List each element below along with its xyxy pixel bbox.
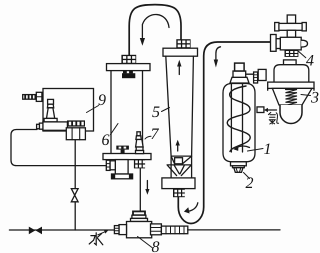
- venturi cone of column 5: [167, 165, 191, 176]
- label 8 leader: [138, 237, 153, 248]
- label 4 leader: [298, 51, 305, 57]
- mixer 8 right outlet coupling: [151, 224, 162, 235]
- bolt cluster under column 5 bottom flange: [173, 189, 185, 198]
- threaded stub from vessel 1 neck: [254, 72, 258, 83]
- threaded nipple on box 9 left: [23, 92, 42, 101]
- regulator 3 dome: [274, 65, 309, 82]
- flow arrow lower inside column 5: [177, 146, 179, 152]
- bolt under column 6 top flange: [122, 71, 135, 78]
- wire: control loop from box 9 to union nipple: [11, 130, 106, 166]
- bolt cluster under bottom flange (right): [134, 159, 146, 168]
- mixer 8 left inlet fitting: [114, 225, 126, 235]
- valve 4 outlet nub: [301, 40, 307, 47]
- valve inside box 9: [44, 99, 57, 122]
- column 5 top flange: [163, 48, 198, 56]
- cylinder valve 4: handwheel: [275, 15, 307, 37]
- float section of column 5: [171, 156, 192, 164]
- wire: top inverted-U tube between column 6 and column 5: [129, 5, 181, 55]
- label 2: [246, 177, 254, 188]
- regulator 3 lower body: [272, 88, 312, 105]
- wire: vertical pipe from flange bolts down to mixer 8: [139, 168, 141, 211]
- regulator 3 top cap: [284, 60, 297, 65]
- label 6: [102, 134, 109, 145]
- label 1 leader: [248, 149, 264, 152]
- label 7 leader: [145, 136, 151, 139]
- striped terminal block in box 9: [67, 120, 85, 126]
- flow arrow upper inside column 5: [178, 67, 180, 75]
- label 7: [151, 129, 159, 139]
- mixer 8 top cap: [131, 211, 148, 221]
- bolt cluster under valve 4: [285, 50, 299, 57]
- bolt cluster on column 5 top flange: [176, 39, 190, 48]
- label 5 leader dash: [162, 108, 170, 112]
- wire: water supply line: [9, 229, 114, 231]
- label 5: [152, 107, 159, 118]
- flow arrow beside pipe: [146, 181, 148, 190]
- flow arrow inside top U-tube: [142, 15, 169, 38]
- vessel 1 gas inlet port: [257, 107, 264, 113]
- saturator vessel 1 body: [223, 84, 255, 162]
- water label 水: [89, 233, 103, 245]
- drain plug 2: [234, 168, 243, 173]
- mixer 8 body: [127, 222, 152, 238]
- label 8: [152, 241, 159, 252]
- valve 4 body: [280, 37, 301, 50]
- relay block under box 9: [66, 128, 85, 140]
- label 6 leader: [111, 124, 119, 135]
- wire: J-tube from column 5 bottom up to valve 4: [178, 42, 270, 223]
- wire: vessel neck to regulator stub: [246, 73, 254, 75]
- wire: gas outlet line to right: [188, 229, 280, 231]
- regulator 3 diaphragm flange: [268, 82, 314, 88]
- side nipple into union: [106, 160, 115, 170]
- label 1: [264, 143, 270, 154]
- threaded outlet pipe: [161, 226, 187, 234]
- valve 4 inlet flange: [271, 35, 277, 52]
- column 6 top flange: [107, 64, 151, 71]
- gas inlet arrow: [268, 109, 277, 111]
- column 6 shell walls: [111, 71, 143, 154]
- label 4: [306, 55, 314, 66]
- gas label 氣: [268, 112, 278, 124]
- vessel 1 neck skirt: [230, 77, 249, 83]
- column 5 tapered tube walls: [166, 56, 194, 178]
- regulator inlet port block: [258, 69, 266, 80]
- bolt cluster on top flange of column 6: [121, 55, 136, 64]
- water flow arrow: [98, 232, 105, 235]
- union body under bottom flange (left): [112, 160, 133, 179]
- flow arrow in J-tube bottom bend: [189, 203, 198, 212]
- vessel 1 neck collar: [233, 71, 246, 77]
- hatched T-bolt on bottom flange: [116, 146, 129, 154]
- regulator 3 sensing bulb: [280, 105, 302, 124]
- label 3 leader: [301, 95, 311, 96]
- label 9 leader: [87, 106, 99, 113]
- coil inside vessel 1: [227, 86, 250, 152]
- flow arrow at top of J-tube: [216, 47, 221, 60]
- column 6 bottom flange: [103, 154, 151, 160]
- label 9: [98, 94, 105, 105]
- actuator cylinder under valve: [37, 122, 68, 130]
- valve 7 on bottom flange of column 6: [136, 132, 144, 154]
- flow arrow inside vessel 1 bottom: [237, 146, 250, 148]
- column 5 bottom flange: [162, 178, 195, 189]
- label 2 leader: [244, 173, 250, 179]
- vessel 1 dip tube: [231, 84, 242, 153]
- wire: branch line from controller down to water line: [74, 140, 76, 230]
- vessel 1 bottom drain collar: [231, 162, 247, 166]
- spring inside regulator: [286, 90, 298, 106]
- vessel 1 top cap: [235, 63, 245, 71]
- controller box 9: [43, 89, 94, 132]
- label 3: [311, 92, 318, 103]
- valve (hourglass) on branch: [71, 189, 78, 196]
- valve (bowtie) on water line: [29, 227, 36, 235]
